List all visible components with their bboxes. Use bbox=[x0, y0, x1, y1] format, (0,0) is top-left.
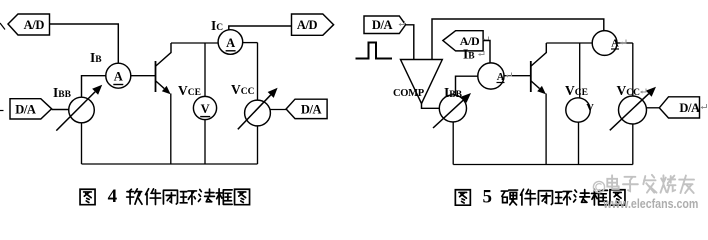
svg-text:A: A bbox=[611, 39, 619, 50]
svg-text:IBB: IBB bbox=[53, 85, 72, 100]
svg-text:COMP: COMP bbox=[393, 88, 425, 99]
svg-text:D/A: D/A bbox=[679, 101, 700, 115]
svg-text:V: V bbox=[201, 102, 210, 116]
svg-text:A/D: A/D bbox=[24, 18, 45, 32]
svg-text:VCE: VCE bbox=[178, 83, 201, 98]
svg-text:A/D: A/D bbox=[297, 18, 318, 32]
svg-text:A: A bbox=[114, 70, 123, 84]
svg-text:4: 4 bbox=[108, 186, 118, 207]
svg-text:D/A: D/A bbox=[15, 103, 36, 117]
svg-text:VCC: VCC bbox=[231, 82, 255, 97]
svg-text:D/A: D/A bbox=[372, 18, 393, 32]
svg-text:IB: IB bbox=[90, 50, 102, 65]
svg-text:D/A: D/A bbox=[301, 103, 322, 117]
svg-text:VCC: VCC bbox=[617, 83, 641, 98]
svg-text:IBB: IBB bbox=[444, 85, 463, 100]
svg-text:VCE: VCE bbox=[565, 83, 588, 98]
svg-text:IB: IB bbox=[463, 47, 475, 62]
svg-text:5: 5 bbox=[483, 187, 493, 208]
svg-text:A: A bbox=[497, 72, 505, 83]
svg-text:A: A bbox=[226, 36, 235, 50]
svg-text:IC: IC bbox=[211, 18, 223, 33]
svg-text:V: V bbox=[586, 103, 594, 114]
svg-text:www.elecfans.com: www.elecfans.com bbox=[603, 196, 699, 211]
